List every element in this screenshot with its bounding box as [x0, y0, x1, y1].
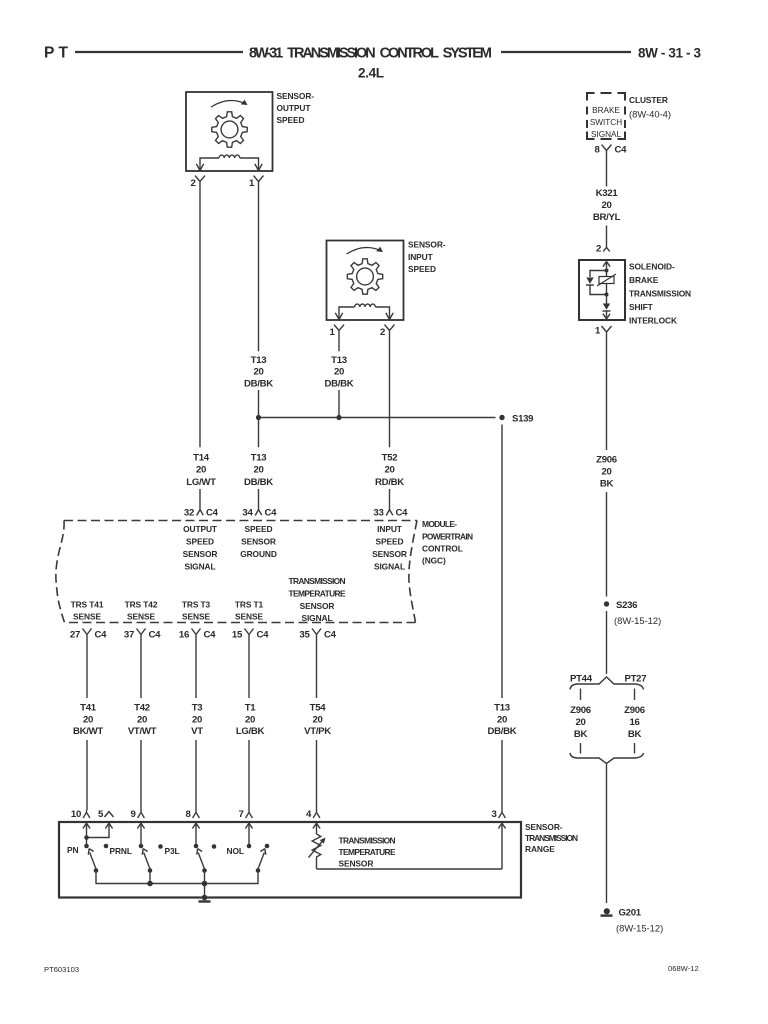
TRS pin 5 inside arrow [87, 823, 113, 837]
wire label Z906 20 BK left branch [570, 705, 591, 740]
svg-text:2.4L: 2.4L [358, 66, 384, 81]
svg-text:C4: C4 [396, 508, 409, 519]
svg-text:PT27: PT27 [625, 674, 647, 685]
solenoid top junction dot [605, 269, 609, 273]
svg-text:20: 20 [384, 465, 394, 476]
svg-text:SENSOR: SENSOR [300, 601, 335, 611]
svg-text:SPEED: SPEED [408, 264, 436, 274]
svg-text:37: 37 [124, 630, 134, 641]
svg-text:20: 20 [83, 714, 93, 725]
TRS pin 7 connector [238, 809, 252, 820]
PCM label TRS T42 sense [125, 600, 158, 622]
temp sensor to pin 3 link wire [317, 868, 503, 870]
wire label T41 20 BK/WT [73, 702, 103, 737]
svg-text:Z906: Z906 [624, 705, 645, 716]
svg-text:2: 2 [380, 327, 385, 338]
wire label Z906 16 BK right branch [624, 705, 645, 740]
solenoid top edge arrow [603, 261, 610, 276]
svg-text:9: 9 [130, 809, 135, 820]
switch T42 pole dot [139, 844, 144, 849]
wire T1 PCM 15 to TRS 7 [248, 641, 250, 811]
harness top brace [570, 677, 644, 690]
svg-text:OUTPUT: OUTPUT [277, 103, 312, 113]
wire T41 PCM 27 to TRS 10 [86, 641, 88, 811]
PCM module dashed outline right edge [409, 521, 417, 623]
TRS case ground bar [199, 900, 211, 902]
output speed sensor label [277, 91, 315, 125]
output sensor pin 1 edge arrow [255, 164, 262, 171]
svg-text:DB/BK: DB/BK [488, 726, 517, 737]
wire T3 PCM 16 to TRS 8 [195, 641, 197, 811]
svg-text:T1: T1 [245, 702, 257, 713]
wire T13 from input sensor pin 1 to splice [338, 337, 340, 418]
svg-text:C4: C4 [95, 630, 108, 641]
PCM label TRS T3 sense [182, 600, 211, 622]
input speed sensor label [408, 240, 446, 275]
svg-text:10: 10 [71, 809, 81, 820]
PCM module name label [422, 519, 473, 566]
TRS pin 8 connector [185, 809, 199, 820]
svg-text:TRS T41: TRS T41 [71, 600, 104, 610]
switch PN arm [88, 849, 96, 869]
svg-text:SIGNAL: SIGNAL [301, 613, 332, 623]
splice bus wire S139 [259, 417, 496, 419]
svg-text:TRANSMISSION: TRANSMISSION [629, 289, 691, 299]
svg-text:TRANSMISSION: TRANSMISSION [339, 836, 396, 846]
svg-text:VT/PK: VT/PK [304, 726, 331, 737]
TRS component name label [525, 822, 578, 854]
svg-text:068W-12: 068W-12 [668, 964, 699, 973]
header rule right [501, 51, 631, 53]
solenoid pin 1 connector [595, 326, 612, 340]
svg-text:33: 33 [373, 508, 383, 519]
switch PN bottom dot [94, 868, 99, 873]
solenoid pin 2 connector [596, 244, 610, 255]
svg-text:SIGNAL: SIGNAL [184, 562, 215, 572]
svg-text:T13: T13 [331, 355, 347, 366]
svg-text:MODULE-: MODULE- [422, 519, 457, 529]
cluster brake switch signal dashed box [587, 93, 625, 139]
input sensor pin 1 terminal Y [329, 325, 344, 338]
svg-text:TRS T1: TRS T1 [235, 600, 264, 610]
svg-text:20: 20 [192, 714, 202, 725]
svg-text:S236: S236 [616, 600, 637, 611]
svg-text:T52: T52 [382, 452, 398, 463]
svg-text:SENSE: SENSE [235, 612, 263, 622]
PCM pin 32 connector C4 [184, 505, 219, 519]
svg-text:32: 32 [184, 508, 194, 519]
PCM label output speed sensor signal [183, 524, 218, 572]
svg-text:Z906: Z906 [570, 705, 591, 716]
svg-text:SHIFT: SHIFT [629, 302, 654, 312]
NOL left contact dot [212, 844, 217, 849]
TRS pin 9 connector [130, 809, 144, 820]
TRS pin 7 inside arrow [245, 823, 252, 846]
svg-text:POWERTRAIN: POWERTRAIN [422, 532, 473, 542]
splice junction dot middle [336, 415, 341, 420]
svg-text:T41: T41 [80, 702, 97, 713]
wire label T54 20 VT/PK [304, 702, 331, 737]
svg-text:TRANSMISSION: TRANSMISSION [289, 576, 346, 586]
switch NOL arm [258, 849, 266, 869]
switch NOL bottom dot [256, 868, 261, 873]
svg-text:LG/WT: LG/WT [186, 477, 216, 488]
wire label T3 20 VT [191, 702, 203, 737]
TRS pin 4 inside arrow [313, 823, 320, 834]
PCM pin 37 connector C4 [124, 629, 161, 641]
svg-text:C4: C4 [615, 145, 628, 156]
TRS box outline [59, 822, 521, 898]
svg-text:S139: S139 [512, 414, 533, 425]
svg-text:PT44: PT44 [570, 674, 593, 685]
wire label T13 20 DB/BK right drop [488, 702, 517, 737]
switch NOL pole dot [265, 844, 270, 849]
temperature sensor variable arrow [309, 838, 326, 858]
PCM pin 27 connector C4 [70, 629, 107, 641]
svg-text:C4: C4 [204, 630, 217, 641]
svg-text:20: 20 [245, 714, 255, 725]
svg-text:TRANSMISSION: TRANSMISSION [525, 833, 578, 843]
svg-text:(NGC): (NGC) [422, 556, 446, 566]
solenoid coil box [597, 274, 616, 286]
switch T42 bottom dot [148, 868, 153, 873]
svg-text:DB/BK: DB/BK [325, 378, 354, 389]
svg-text:BK: BK [600, 479, 614, 490]
svg-text:SENSE: SENSE [182, 612, 210, 622]
transmission temperature sensor label [339, 836, 397, 869]
output sensor pin 2 edge arrow [196, 164, 203, 171]
svg-text:C4: C4 [265, 508, 278, 519]
wire T54 PCM 35 to TRS 4 [316, 641, 318, 811]
switch PN pole dot [84, 844, 89, 849]
P3L contact dot [158, 844, 163, 849]
TRS common bus [96, 871, 258, 898]
harness bottom brace [570, 753, 644, 764]
svg-text:20: 20 [601, 200, 611, 211]
output speed sensor pickup coil [200, 155, 259, 170]
svg-text:SENSOR: SENSOR [372, 549, 407, 559]
svg-text:C4: C4 [324, 630, 337, 641]
svg-text:SENSE: SENSE [127, 612, 155, 622]
wire label T14 20 LG/WT [186, 452, 216, 488]
bus junction dot 1 [147, 881, 153, 887]
switch T3 pole dot [194, 844, 199, 849]
PCM module dashed outline left wavy edge [56, 521, 65, 623]
svg-text:SWITCH: SWITCH [590, 118, 622, 127]
svg-text:VT: VT [191, 726, 203, 737]
svg-text:SPEED: SPEED [277, 115, 305, 125]
PCM label transmission temperature sensor signal [289, 576, 347, 623]
solenoid name label [629, 262, 691, 326]
wire label T13 20 DB/BK upper left [244, 355, 273, 389]
svg-text:3: 3 [491, 809, 496, 820]
svg-text:SIGNAL: SIGNAL [374, 562, 405, 572]
solenoid bottom edge arrow [603, 311, 610, 319]
svg-text:LG/BK: LG/BK [236, 726, 265, 737]
svg-text:BRAKE: BRAKE [592, 106, 620, 115]
svg-text:SENSOR-: SENSOR- [408, 240, 446, 250]
bus junction dot 2 [202, 881, 208, 887]
TRS pin 5 connector [98, 809, 114, 820]
svg-text:2: 2 [596, 244, 601, 255]
TRS pin 3 connector [491, 809, 505, 820]
switch T42 arm [142, 849, 150, 869]
splice S139 dot [499, 415, 504, 420]
input sensor pin 1 edge arrow [335, 313, 342, 320]
svg-text:SENSOR: SENSOR [339, 859, 374, 869]
svg-text:T3: T3 [192, 702, 203, 713]
svg-text:P3L: P3L [165, 846, 180, 856]
switch T3 arm [197, 849, 205, 869]
svg-text:DB/BK: DB/BK [244, 477, 273, 488]
svg-text:TRS T3: TRS T3 [182, 600, 211, 610]
svg-text:SENSOR-: SENSOR- [525, 822, 563, 832]
svg-text:15: 15 [232, 630, 243, 641]
TRS pin 9 inside arrow [137, 823, 144, 846]
svg-text:(8W-40-4): (8W-40-4) [629, 109, 671, 120]
splice S236 dot [604, 601, 609, 606]
PCM pin 34 connector C4 [242, 505, 277, 519]
input speed sensor rotation arrow [347, 247, 384, 254]
svg-text:(8W-15-12): (8W-15-12) [614, 615, 661, 626]
solenoid box outline [579, 260, 625, 320]
PCM label TRS T41 sense [71, 600, 104, 622]
svg-text:SPEED: SPEED [245, 524, 273, 534]
svg-text:34: 34 [242, 508, 253, 519]
svg-text:8W - 31 - 3: 8W - 31 - 3 [638, 46, 701, 61]
PCM label speed sensor ground [240, 524, 277, 559]
svg-text:PRNL: PRNL [110, 846, 132, 856]
svg-text:20: 20 [137, 714, 147, 725]
wire T52 from input sensor pin 2 to PCM 33 [389, 337, 391, 505]
svg-text:27: 27 [70, 630, 80, 641]
solenoid series diode [603, 304, 611, 312]
harness right stub upper [634, 689, 636, 701]
cluster pin 8 connector C4 [594, 145, 627, 158]
svg-text:CONTROL: CONTROL [422, 544, 463, 554]
svg-text:20: 20 [334, 367, 344, 378]
svg-text:SPEED: SPEED [186, 537, 214, 547]
svg-text:VT/WT: VT/WT [128, 726, 157, 737]
svg-text:PT603103: PT603103 [44, 965, 79, 974]
svg-text:20: 20 [196, 465, 206, 476]
svg-text:BK: BK [574, 729, 588, 740]
svg-text:C4: C4 [257, 630, 270, 641]
output sensor pin 2 terminal Y [190, 176, 205, 189]
svg-text:SPEED: SPEED [376, 537, 404, 547]
svg-text:16: 16 [179, 630, 189, 641]
svg-text:SIGNAL: SIGNAL [591, 130, 621, 139]
harness right stub lower [634, 743, 636, 754]
header rule left [75, 51, 243, 53]
wire Z906 solenoid to S236 [606, 339, 608, 597]
solenoid flyback diode [586, 278, 594, 286]
output speed sensor box [186, 92, 273, 171]
wire brace to G201 [606, 764, 608, 903]
svg-text:RANGE: RANGE [525, 844, 555, 854]
svg-text:20: 20 [601, 467, 611, 478]
PCM pin 16 connector C4 [179, 629, 216, 641]
wire K321 cluster to solenoid [606, 157, 608, 245]
svg-text:SOLENOID-: SOLENOID- [629, 262, 675, 272]
svg-text:T54: T54 [310, 702, 327, 713]
PCM pin 15 connector C4 [232, 629, 269, 641]
svg-text:BR/YL: BR/YL [593, 212, 621, 223]
svg-text:TRS T42: TRS T42 [125, 600, 158, 610]
svg-text:GROUND: GROUND [240, 549, 277, 559]
svg-text:BK: BK [628, 729, 642, 740]
wire T14 from output sensor pin 2 to PCM 32 [199, 189, 201, 505]
svg-text:35: 35 [299, 630, 310, 641]
TRS pin 10 connector [71, 809, 90, 820]
harness left stub lower [580, 743, 582, 754]
ground G201 symbol [601, 908, 613, 915]
svg-text:SENSE: SENSE [73, 612, 101, 622]
temperature sensor resistor zigzag [312, 834, 321, 869]
svg-text:T14: T14 [193, 452, 210, 463]
svg-text:7: 7 [238, 809, 243, 820]
input sensor pin 2 terminal Y [380, 325, 395, 338]
wire T42 PCM 37 to TRS 9 [140, 641, 142, 811]
svg-text:CLUSTER: CLUSTER [629, 95, 668, 105]
output speed sensor gear [212, 112, 247, 147]
wire label K321 20 BR/YL [593, 188, 621, 223]
svg-text:8W-31 TRANSMISSION CONTROL SYS: 8W-31 TRANSMISSION CONTROL SYSTEM [249, 46, 492, 62]
svg-text:INPUT: INPUT [377, 524, 403, 534]
svg-text:OUTPUT: OUTPUT [183, 524, 218, 534]
svg-text:INPUT: INPUT [408, 252, 434, 262]
svg-text:2: 2 [190, 178, 195, 189]
wire T13 from output sensor pin 1 to PCM 34 [258, 189, 260, 505]
svg-text:SENSOR-: SENSOR- [277, 91, 315, 101]
PCM module dashed outline bottom edge [65, 622, 416, 624]
TRS pin 4 connector [306, 809, 320, 820]
svg-text:T13: T13 [494, 702, 510, 713]
svg-text:BRAKE: BRAKE [629, 275, 659, 285]
wire label T42 20 VT/WT [128, 702, 157, 737]
harness left stub upper [580, 689, 582, 701]
solenoid bottom junction dot [605, 293, 609, 297]
TRS pin 7 contact dot [247, 844, 252, 849]
solenoid coil lower wire [606, 284, 608, 304]
svg-text:T13: T13 [251, 355, 267, 366]
svg-text:(8W-15-12): (8W-15-12) [616, 923, 663, 934]
svg-text:20: 20 [253, 367, 263, 378]
svg-text:K321: K321 [596, 188, 619, 199]
TRS pin 10 inside arrow [83, 823, 90, 846]
svg-text:RD/BK: RD/BK [375, 477, 404, 488]
TRS pin 3 inside arrow [498, 823, 505, 869]
svg-text:Z906: Z906 [596, 455, 617, 466]
PCM label TRS T1 sense [235, 600, 264, 622]
svg-text:DB/BK: DB/BK [244, 378, 273, 389]
PCM module dashed outline top edge [64, 520, 417, 522]
TRS pin 10/5 junction dot [84, 835, 89, 840]
svg-text:T13: T13 [251, 452, 267, 463]
svg-text:20: 20 [312, 714, 322, 725]
svg-text:16: 16 [629, 717, 639, 728]
svg-text:SENSOR: SENSOR [183, 549, 218, 559]
input speed sensor pickup coil [339, 304, 390, 319]
output speed sensor rotation arrow [211, 100, 248, 107]
wire S236 to harness brace [606, 611, 608, 674]
cluster box label brake switch signal [590, 106, 622, 139]
PRNL contact dot [104, 844, 109, 849]
svg-text:TEMPERATURE: TEMPERATURE [339, 847, 397, 857]
wire label T52 20 RD/BK [375, 452, 404, 488]
splice junction dot left [256, 415, 261, 420]
svg-text:G201: G201 [619, 908, 642, 919]
bus edge dot [202, 895, 208, 901]
svg-text:BK/WT: BK/WT [73, 726, 103, 737]
svg-text:INTERLOCK: INTERLOCK [629, 316, 677, 326]
input speed sensor gear [347, 259, 382, 294]
svg-text:SENSOR: SENSOR [241, 537, 276, 547]
PCM pin 35 connector C4 [299, 629, 336, 641]
TRS pin 8 inside arrow [192, 823, 199, 846]
PCM label input speed sensor signal [372, 524, 407, 572]
svg-text:TEMPERATURE: TEMPERATURE [289, 589, 347, 599]
svg-text:20: 20 [497, 714, 507, 725]
PCM pin 33 connector C4 [373, 505, 408, 519]
solenoid flyback branch wire [590, 271, 607, 295]
input speed sensor box [327, 241, 404, 321]
output sensor pin 1 terminal Y [249, 176, 264, 189]
svg-text:C4: C4 [206, 508, 219, 519]
svg-text:T42: T42 [134, 702, 150, 713]
svg-text:PN: PN [67, 845, 78, 855]
wire label T13 20 DB/BK input [325, 355, 354, 389]
wire T13 from splice to TRS pin 3 [501, 425, 503, 811]
svg-text:C4: C4 [149, 630, 162, 641]
svg-text:20: 20 [575, 717, 585, 728]
wire label Z906 20 BK [596, 455, 617, 490]
input sensor pin 2 edge arrow [386, 313, 393, 320]
svg-text:NOL: NOL [227, 846, 244, 856]
switch T3 bottom dot [202, 868, 207, 873]
wire label T1 20 LG/BK [236, 702, 265, 737]
wire label T13 20 DB/BK lower left [244, 452, 273, 488]
svg-text:20: 20 [253, 465, 263, 476]
